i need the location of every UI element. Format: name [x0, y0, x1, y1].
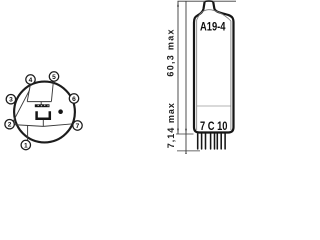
wire pin4 lead [27, 84, 30, 101]
tube envelope circle (base bottom view) [14, 82, 75, 143]
pin 4 [26, 75, 35, 84]
pin 3 [6, 95, 15, 104]
inner glass dome [197, 10, 231, 21]
inner glass wall left [196, 20, 198, 130]
dimension line 7,14 max [185, 1, 187, 152]
svg-text:A19-4: A19-4 [200, 20, 226, 34]
pins under base [198, 134, 225, 149]
tube glass outline [194, 2, 234, 133]
pin 2 [5, 120, 14, 129]
pin 1 [21, 140, 30, 149]
wire pin5 lead [51, 81, 53, 101]
svg-text:6: 6 [72, 96, 76, 103]
svg-text:4: 4 [29, 77, 33, 84]
cathode bracket [37, 111, 50, 119]
wire pin1 lead [27, 125, 29, 140]
svg-text:3: 3 [9, 97, 13, 104]
dimension top extension line [178, 0, 237, 2]
svg-text:5: 5 [52, 74, 56, 81]
wire cathode stub [42, 120, 44, 127]
extension tick at pin bottom [177, 150, 200, 152]
pin 6 [69, 94, 78, 103]
wire anode stub [40, 102, 42, 105]
anode bar (hatched) [35, 104, 50, 107]
svg-text:7 C 10: 7 C 10 [200, 119, 228, 133]
wire pin2 to anode junction [13, 90, 30, 122]
gas-filling dot [58, 109, 63, 114]
wire cathode bus pin2-pin7 [14, 124, 74, 127]
extension tick at base bottom [176, 133, 194, 135]
pin 5 [49, 72, 58, 81]
svg-text:7,14 max: 7,14 max [166, 102, 176, 148]
inner glass wall right [230, 21, 232, 130]
svg-text:2: 2 [8, 122, 12, 129]
tube exhaust tip [205, 0, 214, 3]
stem line [197, 105, 231, 107]
wire anode bus [27, 101, 51, 103]
svg-text:7: 7 [76, 123, 80, 130]
svg-text:1: 1 [24, 142, 28, 149]
dimension line 60,3 max [177, 1, 179, 134]
svg-text:60,3 max: 60,3 max [166, 28, 176, 76]
pin 7 [73, 121, 82, 130]
